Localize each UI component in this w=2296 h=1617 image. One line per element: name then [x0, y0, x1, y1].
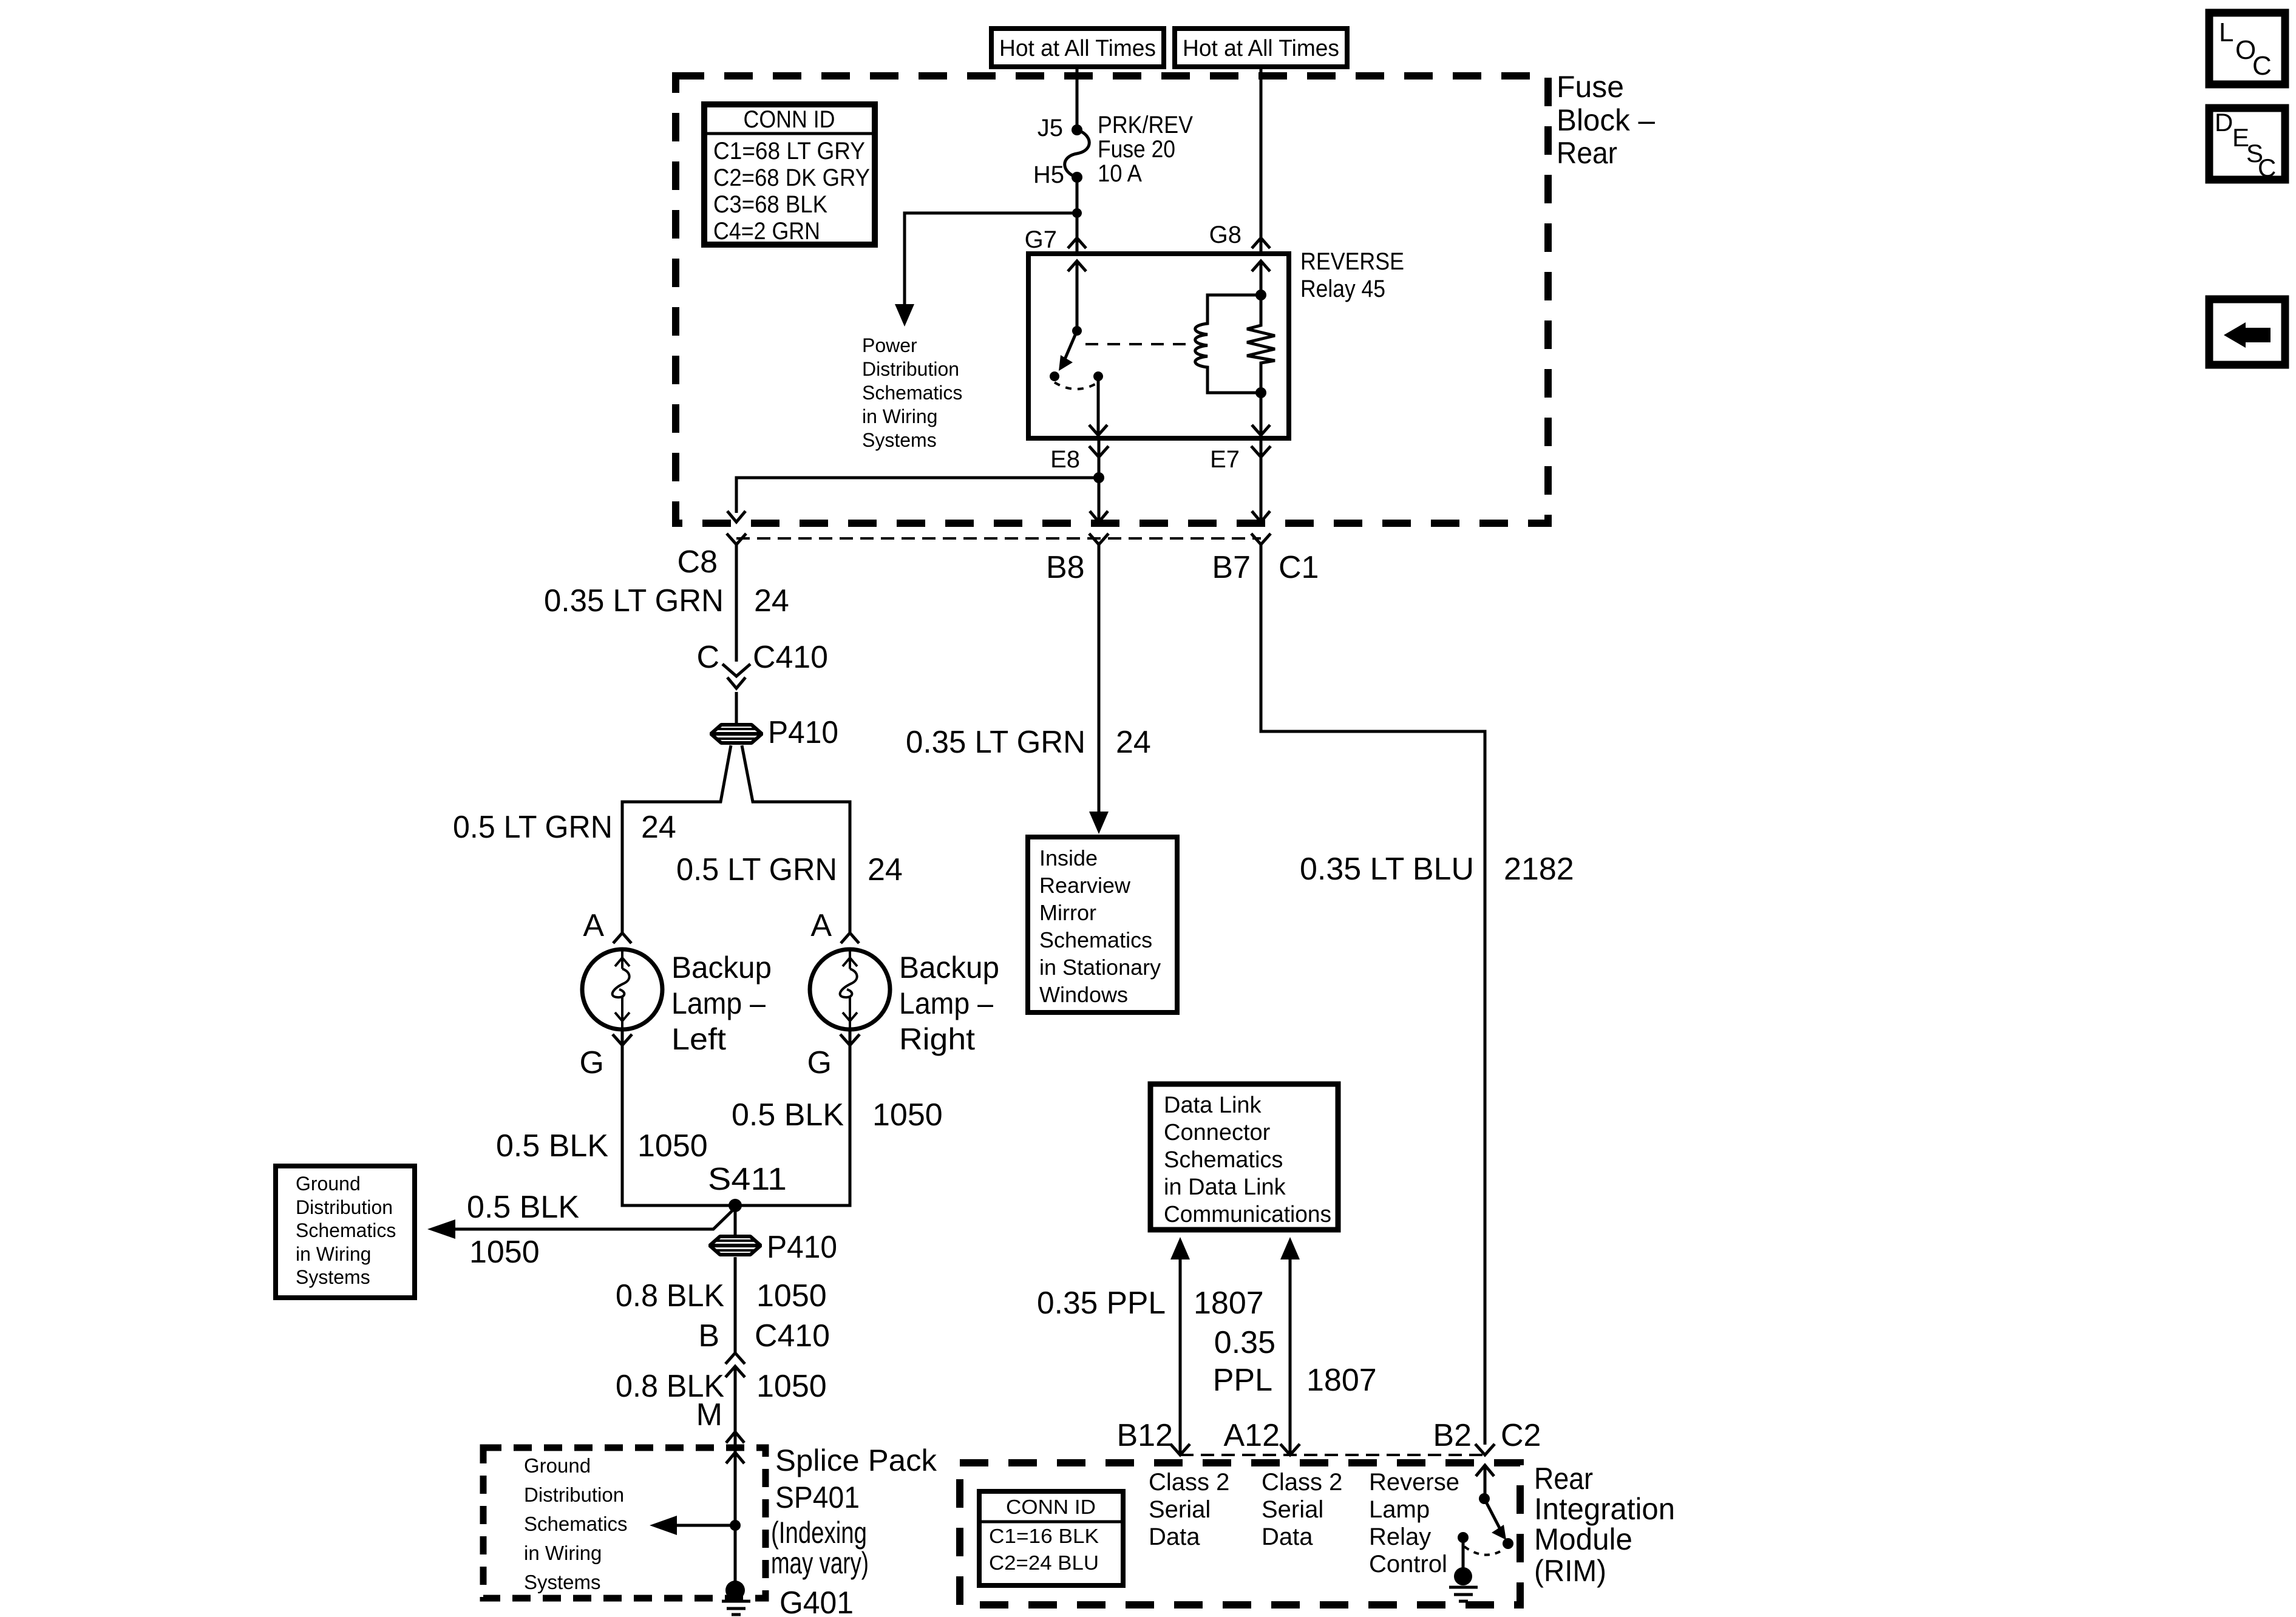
- svg-text:E7: E7: [1210, 446, 1240, 473]
- RIM switch blade with arrowhead: [1484, 1499, 1501, 1530]
- svg-text:(Indexing: (Indexing: [771, 1516, 867, 1550]
- svg-text:Communications: Communications: [1164, 1202, 1331, 1227]
- svg-text:0.5 BLK: 0.5 BLK: [732, 1097, 844, 1133]
- relay switch travel dashed arc: [1055, 382, 1098, 389]
- label Fuse Block - Rear: [1557, 70, 1655, 170]
- RIM switch contact dot (right): [1503, 1538, 1513, 1549]
- svg-text:G: G: [807, 1045, 832, 1080]
- svg-text:Ground: Ground: [524, 1454, 591, 1477]
- svg-text:C1: C1: [1279, 550, 1319, 585]
- wire contact to RIM ground: [1462, 1537, 1465, 1569]
- svg-text:0.35 LT BLU: 0.35 LT BLU: [1300, 852, 1474, 887]
- svg-text:24: 24: [641, 810, 676, 845]
- svg-text:Hot at All Times: Hot at All Times: [999, 36, 1156, 61]
- CONN ID table (RIM): [979, 1491, 1123, 1585]
- svg-text:Windows: Windows: [1039, 982, 1128, 1007]
- label Class 2 Serial Data (B12): [1149, 1469, 1229, 1550]
- svg-text:Schematics: Schematics: [862, 382, 962, 404]
- connector row dashed line (RIM): [1180, 1454, 1485, 1456]
- nav icon LOC box: [2209, 13, 2285, 84]
- wire right lamp to S411: [735, 1029, 850, 1205]
- wire B8 to inside rearview mirror: [1098, 544, 1101, 812]
- wire P410 down to C410: [734, 1257, 737, 1353]
- svg-text:in Stationary: in Stationary: [1039, 955, 1161, 980]
- svg-text:(RIM): (RIM): [1534, 1554, 1606, 1588]
- CONN ID table (fuse block): [704, 104, 875, 245]
- svg-text:Schematics: Schematics: [296, 1219, 396, 1241]
- junction dot in splice pack: [730, 1520, 741, 1531]
- relay switch output wire to E8 with arrow: [1097, 376, 1100, 435]
- svg-text:Systems: Systems: [524, 1571, 601, 1593]
- fuse block rear dashed outline: [676, 76, 1548, 523]
- nav icon DESC box: [2209, 108, 2285, 182]
- svg-text:Integration: Integration: [1534, 1492, 1675, 1526]
- svg-text:C2=68 DK GRY: C2=68 DK GRY: [713, 164, 870, 191]
- label PRK/REV Fuse 20 10 A: [1098, 112, 1193, 187]
- svg-text:0.35 LT GRN: 0.35 LT GRN: [906, 725, 1085, 760]
- wire split below P410: [622, 745, 731, 933]
- svg-text:2182: 2182: [1504, 852, 1574, 887]
- svg-text:Module: Module: [1534, 1522, 1632, 1556]
- pin G7 chevron: [1068, 238, 1086, 248]
- svg-text:Relay 45: Relay 45: [1300, 276, 1385, 302]
- wire M into splice pack: [734, 1432, 737, 1592]
- svg-text:B12: B12: [1116, 1418, 1173, 1453]
- arrow E7 exit at fuse block edge: [1252, 511, 1270, 522]
- rear integration module dashed box: [960, 1463, 1520, 1605]
- svg-text:Schematics: Schematics: [1039, 927, 1152, 952]
- svg-text:PRK/REV: PRK/REV: [1098, 112, 1193, 138]
- svg-text:Lamp: Lamp: [1369, 1496, 1430, 1523]
- nav icon back arrow box: [2209, 299, 2285, 365]
- svg-text:Rear: Rear: [1557, 136, 1617, 170]
- svg-text:Distribution: Distribution: [524, 1483, 624, 1506]
- svg-text:C410: C410: [753, 640, 828, 675]
- RIM switch pivot dot: [1479, 1493, 1490, 1504]
- RIM switch input arrow from C2: [1476, 1465, 1494, 1476]
- relay switch contact dot (left): [1050, 371, 1059, 381]
- relay resistor zigzag: [1247, 295, 1275, 393]
- svg-text:REVERSE: REVERSE: [1300, 248, 1404, 275]
- pin G8 chevron: [1252, 238, 1270, 248]
- svg-text:Relay: Relay: [1369, 1524, 1431, 1550]
- pass-through connector P410: [711, 725, 762, 743]
- svg-text:L: L: [2219, 18, 2233, 47]
- svg-text:J5: J5: [1038, 115, 1063, 141]
- svg-text:1050: 1050: [637, 1128, 708, 1164]
- wire Hot1 down to fuse J5: [1076, 67, 1079, 130]
- wire left lamp to S411: [622, 1029, 735, 1205]
- svg-text:PPL: PPL: [1213, 1363, 1272, 1398]
- relay switch input wire with arrow from G7: [1068, 261, 1086, 271]
- wire B12 to data link connector: [1179, 1259, 1182, 1455]
- ground symbol G401: [722, 1601, 750, 1615]
- wire C410 to P410: [735, 692, 738, 724]
- relay node dot top: [1255, 290, 1266, 300]
- wire S411 down to P410: [734, 1205, 737, 1235]
- pin A12 chevron: [1280, 1444, 1300, 1455]
- label Splice Pack SP401 (Indexing may vary): [771, 1443, 937, 1580]
- svg-text:C3=68 BLK: C3=68 BLK: [713, 191, 827, 218]
- label Backup Lamp - Left: [671, 951, 772, 1056]
- pin B8 chevron: [1089, 534, 1109, 544]
- svg-text:in Wiring: in Wiring: [524, 1542, 602, 1564]
- svg-text:D: D: [2215, 108, 2233, 137]
- connector C410 pin C symbol: [722, 664, 750, 676]
- pass-through connector P410 (lower): [710, 1236, 761, 1255]
- svg-text:G401: G401: [779, 1585, 854, 1617]
- node E8 junction dot: [1093, 472, 1104, 483]
- svg-text:Distribution: Distribution: [296, 1196, 393, 1218]
- fuse PRK/REV 20 terminal dot J5: [1072, 124, 1082, 135]
- label Reverse Lamp Relay Control: [1369, 1469, 1459, 1578]
- pin A chevron (right lamp): [841, 933, 859, 943]
- svg-text:H5: H5: [1033, 161, 1064, 188]
- svg-text:Class 2: Class 2: [1149, 1469, 1229, 1496]
- svg-text:Lamp –: Lamp –: [899, 986, 993, 1020]
- svg-text:A: A: [810, 908, 832, 943]
- svg-text:Mirror: Mirror: [1039, 900, 1096, 925]
- arrow C8 exit at fuse block edge: [727, 511, 746, 522]
- svg-text:1050: 1050: [469, 1235, 540, 1270]
- backup lamp left bulb: [582, 949, 662, 1029]
- svg-text:C2: C2: [1501, 1418, 1541, 1453]
- svg-text:Rearview: Rearview: [1039, 873, 1131, 898]
- svg-text:C410: C410: [755, 1318, 830, 1354]
- relay feed wire from G8 with arrow: [1252, 261, 1270, 271]
- connector row dashed line (fuse block connectors): [736, 537, 1261, 540]
- relay switch blade with arrowhead: [1064, 331, 1077, 361]
- arrowhead ground distribution: [427, 1219, 455, 1239]
- ground G401 terminal dot: [725, 1581, 745, 1600]
- svg-text:C: C: [696, 640, 719, 675]
- reference box Data Link Connector Schematics in Data Link Communications: [1150, 1084, 1338, 1230]
- RIM switch travel dashed arc: [1464, 1547, 1504, 1555]
- svg-text:1050: 1050: [872, 1097, 943, 1133]
- svg-text:Ground: Ground: [296, 1173, 361, 1195]
- svg-text:Systems: Systems: [862, 429, 937, 451]
- svg-text:Schematics: Schematics: [524, 1513, 628, 1535]
- svg-text:Backup: Backup: [671, 951, 772, 985]
- svg-text:0.5 BLK: 0.5 BLK: [467, 1190, 579, 1225]
- svg-text:C: C: [2258, 154, 2276, 182]
- RIM switch contact dot (left): [1458, 1532, 1469, 1543]
- wire S411 to ground distribution arrow: [455, 1208, 735, 1229]
- label Class 2 Serial Data (A12): [1262, 1469, 1342, 1550]
- reference text Ground Distribution Schematics in Wiring Systems (splice pack): [524, 1454, 628, 1593]
- svg-text:C1=16 BLK: C1=16 BLK: [989, 1525, 1099, 1547]
- connector C410 pin B symbol: [725, 1353, 745, 1364]
- svg-text:Left: Left: [671, 1022, 726, 1056]
- svg-text:Distribution: Distribution: [862, 358, 959, 380]
- svg-text:S411: S411: [708, 1162, 787, 1197]
- svg-text:0.5 BLK: 0.5 BLK: [496, 1128, 608, 1164]
- svg-text:Block –: Block –: [1557, 103, 1655, 137]
- reference box Inside Rearview Mirror Schematics in Stationary Windows: [1028, 837, 1177, 1012]
- svg-text:SP401: SP401: [775, 1480, 860, 1514]
- relay switch pivot dot: [1072, 326, 1082, 336]
- wire A12 to data link connector: [1289, 1259, 1292, 1455]
- RIM ground terminal dot: [1454, 1567, 1472, 1585]
- svg-text:C4=2 GRN: C4=2 GRN: [713, 218, 820, 245]
- relay REVERSE Relay 45 box: [1028, 254, 1289, 438]
- arrow E8 exit at fuse block edge: [1090, 511, 1108, 522]
- svg-text:B7: B7: [1212, 550, 1251, 585]
- svg-text:may vary): may vary): [771, 1546, 869, 1580]
- arrowhead to power distribution: [895, 304, 914, 327]
- svg-text:Data: Data: [1149, 1524, 1200, 1550]
- power feed box "Hot at All Times" (right): [1175, 29, 1347, 67]
- fuse terminal dot H5: [1072, 172, 1082, 183]
- svg-text:Schematics: Schematics: [1164, 1147, 1283, 1173]
- pin G chevron (left lamp): [613, 1034, 632, 1045]
- relay output wire to E7 with arrow: [1260, 393, 1263, 435]
- svg-text:B: B: [698, 1318, 719, 1354]
- svg-text:0.5 LT GRN: 0.5 LT GRN: [676, 852, 837, 887]
- pin E8 chevron: [1098, 438, 1101, 523]
- junction dot below fuse: [1072, 208, 1082, 218]
- fuse element S-curve: [1065, 130, 1090, 177]
- svg-text:Data: Data: [1262, 1524, 1313, 1550]
- svg-text:0.5 LT GRN: 0.5 LT GRN: [453, 810, 613, 845]
- svg-text:CONN ID: CONN ID: [744, 106, 835, 133]
- svg-text:Class 2: Class 2: [1262, 1469, 1342, 1496]
- svg-text:0.35: 0.35: [1214, 1325, 1275, 1360]
- svg-text:Serial: Serial: [1262, 1496, 1323, 1523]
- svg-text:Control: Control: [1369, 1551, 1447, 1578]
- svg-text:0.8 BLK: 0.8 BLK: [616, 1278, 724, 1314]
- svg-text:Rear: Rear: [1534, 1462, 1593, 1496]
- relay node dot bottom: [1255, 387, 1266, 398]
- svg-text:G8: G8: [1209, 222, 1241, 248]
- svg-text:Backup: Backup: [899, 951, 999, 985]
- svg-text:C2=24 BLU: C2=24 BLU: [989, 1551, 1099, 1574]
- svg-text:1050: 1050: [756, 1369, 827, 1404]
- svg-text:B8: B8: [1046, 550, 1085, 585]
- svg-text:0.35 PPL: 0.35 PPL: [1037, 1286, 1166, 1321]
- svg-text:in Data Link: in Data Link: [1164, 1175, 1286, 1200]
- svg-text:A: A: [583, 908, 604, 943]
- label Power Distribution Schematics in Wiring Systems: [862, 334, 962, 451]
- svg-text:A12: A12: [1223, 1418, 1280, 1453]
- svg-text:CONN ID: CONN ID: [1006, 1496, 1096, 1518]
- svg-text:Systems: Systems: [296, 1266, 370, 1288]
- svg-text:Serial: Serial: [1149, 1496, 1211, 1523]
- svg-text:Fuse 20: Fuse 20: [1098, 136, 1175, 163]
- svg-text:C1=68 LT GRY: C1=68 LT GRY: [713, 138, 865, 164]
- pin B7/C1 chevron: [1251, 534, 1271, 544]
- relay coil link dashed line: [1085, 343, 1192, 345]
- svg-text:M: M: [696, 1397, 722, 1432]
- svg-text:Data Link: Data Link: [1164, 1093, 1262, 1118]
- svg-text:Inside: Inside: [1039, 846, 1098, 870]
- wire C1 to RIM C2: [1261, 544, 1485, 1445]
- arrow splice pack to ground distribution: [676, 1524, 735, 1527]
- svg-text:24: 24: [1116, 725, 1151, 760]
- svg-text:P410: P410: [768, 715, 838, 750]
- relay coil branch: [1195, 295, 1261, 393]
- svg-text:Lamp –: Lamp –: [671, 986, 766, 1020]
- svg-text:0.35 LT GRN: 0.35 LT GRN: [544, 583, 724, 619]
- svg-text:Splice Pack: Splice Pack: [775, 1443, 937, 1477]
- label Rear Integration Module (RIM): [1534, 1462, 1675, 1588]
- arrow into splice pack: [726, 1453, 744, 1463]
- svg-text:G: G: [580, 1045, 604, 1080]
- svg-text:Fuse: Fuse: [1557, 70, 1624, 104]
- splice pack SP401 dashed box: [483, 1448, 766, 1598]
- label REVERSE Relay 45: [1300, 248, 1404, 302]
- svg-text:G7: G7: [1025, 226, 1057, 253]
- svg-text:1807: 1807: [1306, 1363, 1377, 1398]
- pin E7 chevron: [1260, 438, 1263, 523]
- svg-text:C8: C8: [678, 544, 718, 580]
- svg-text:P410: P410: [767, 1230, 837, 1265]
- pin G chevron (right lamp): [840, 1034, 860, 1045]
- svg-text:24: 24: [868, 852, 903, 887]
- reference box Ground Distribution Schematics in Wiring Systems: [276, 1166, 415, 1298]
- splice S411 junction dot: [729, 1199, 742, 1212]
- backup lamp right bulb: [810, 949, 890, 1029]
- svg-text:B2: B2: [1433, 1418, 1472, 1453]
- pin M chevron: [726, 1432, 744, 1443]
- wire H5 down to G7: [1076, 177, 1079, 254]
- pin A chevron (left lamp): [613, 933, 631, 943]
- svg-text:1050: 1050: [756, 1278, 827, 1314]
- svg-text:Power: Power: [862, 334, 917, 356]
- svg-text:Connector: Connector: [1164, 1120, 1271, 1145]
- svg-text:10 A: 10 A: [1098, 160, 1142, 187]
- svg-text:Hot at All Times: Hot at All Times: [1183, 36, 1339, 61]
- wire E8 junction left to C8 drop: [736, 478, 1099, 513]
- RIM ground symbol: [1449, 1587, 1478, 1601]
- svg-text:E8: E8: [1050, 446, 1080, 473]
- wire Hot2 down to G8: [1260, 67, 1263, 254]
- power feed box "Hot at All Times" (left): [991, 29, 1164, 67]
- svg-text:24: 24: [754, 583, 789, 619]
- svg-text:1807: 1807: [1194, 1286, 1264, 1321]
- wire C410 to M: [734, 1366, 737, 1432]
- pin B12 chevron: [1170, 1444, 1190, 1455]
- svg-text:Reverse: Reverse: [1369, 1469, 1459, 1496]
- svg-text:Right: Right: [899, 1022, 975, 1056]
- svg-text:in Wiring: in Wiring: [862, 405, 937, 427]
- svg-text:in Wiring: in Wiring: [296, 1243, 371, 1265]
- pin C8 chevron: [727, 534, 746, 544]
- svg-text:C: C: [2252, 51, 2272, 81]
- label Backup Lamp - Right: [899, 951, 999, 1056]
- relay switch contact dot (right): [1093, 371, 1103, 381]
- wire junction to power distribution arrow: [905, 213, 1077, 305]
- pin B2/C2 chevron: [1475, 1444, 1495, 1455]
